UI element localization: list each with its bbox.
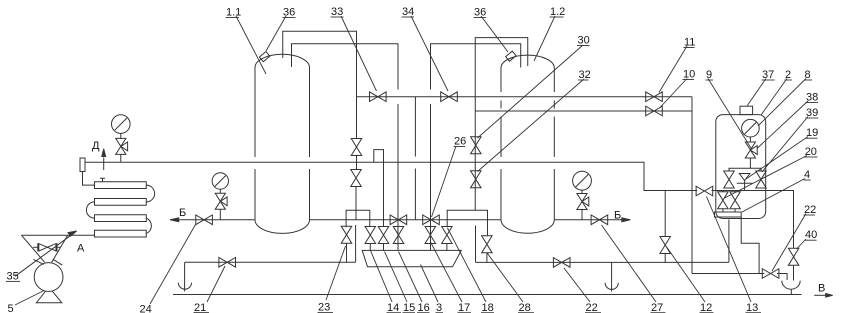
pipe: main line between columns (310, 219, 502, 221)
valve 18 (442, 227, 453, 244)
pressure gauge at column 1.2 bottom (573, 171, 592, 190)
svg-text:14: 14 (387, 302, 399, 313)
leader 8 (758, 79, 806, 127)
leader 27 (602, 225, 657, 302)
svg-text:Б: Б (614, 210, 621, 222)
separator neck (740, 106, 753, 114)
pressure gauge on separator (742, 119, 760, 137)
pipe: long middle line y=162.3 from orifice to right section (85, 162, 794, 280)
orifice fitting rectangle (80, 158, 85, 172)
nozzle 36 on column 1.2 (506, 51, 516, 61)
pump nozzle strokes (33, 259, 62, 265)
valve 10 (646, 106, 663, 116)
leader 19 (746, 137, 808, 180)
valve 33 (370, 92, 387, 102)
svg-text:21: 21 (194, 302, 206, 313)
svg-text:26: 26 (454, 136, 466, 148)
pipe: bridge cap over main line feeding valves 18 and 28 (447, 210, 487, 236)
leader 23 (326, 246, 346, 300)
adsorber column 1.1 shell walls (255, 68, 310, 220)
valve 24 on line Б (196, 215, 213, 225)
pressure gauge at column 1.1 bottom (212, 173, 228, 189)
pump 5 support triangle (36, 287, 61, 303)
gauge isolation 3-way valve Д (116, 138, 128, 154)
pipe: collection line to sewer, В product line (173, 294, 802, 296)
separator lower-left valve 20 (718, 192, 729, 209)
svg-text:38: 38 (806, 92, 818, 104)
underline 12 (700, 312, 714, 313)
underline 36 right (474, 17, 487, 19)
stems of lower valve pair (723, 191, 735, 213)
svg-text:39: 39 (806, 107, 818, 119)
coil U-bend right bottom (146, 218, 151, 234)
adsorber column 1.1 top dome (255, 54, 310, 67)
leader 36 right (481, 16, 508, 52)
pipe: header y=111 with valve 10 (475, 110, 692, 112)
gauge isolation 3-way valve on separator (745, 142, 757, 158)
underline 40 (805, 239, 817, 241)
pipe: regeneration header y=96.7 with valves 33,34,11 (357, 96, 693, 98)
underline 1.1 (226, 17, 240, 19)
valve 13 (696, 186, 713, 196)
heat exchanger coil tube 1 (95, 182, 147, 189)
svg-text:1.2: 1.2 (550, 6, 565, 18)
separator lower-right valve 19 (730, 192, 741, 209)
valve 22 (553, 258, 570, 268)
underline 15 (403, 312, 416, 313)
svg-text:28: 28 (519, 302, 531, 313)
underline 30 (577, 45, 590, 47)
svg-text:18: 18 (482, 302, 494, 313)
nozzle 36 on column 1.1 (259, 52, 269, 62)
underline 8 (804, 79, 812, 81)
underline 35 (6, 280, 20, 282)
pipe: line A from column 1.1 top to valve line (283, 31, 357, 138)
underline 20 (804, 156, 817, 158)
pipe: main line right of column 1.2 with valve 27 and arrow Б (554, 219, 626, 221)
underline 4 (804, 179, 811, 181)
underline 34 (402, 16, 415, 18)
svg-text:30: 30 (578, 35, 590, 47)
valve 30 (471, 137, 482, 154)
valve 23 (341, 226, 352, 243)
pump 5 circle (34, 263, 63, 292)
valve 14 (365, 227, 376, 244)
leader 28 (487, 253, 523, 302)
svg-text:36: 36 (283, 7, 295, 19)
svg-text:11: 11 (684, 37, 695, 49)
pipe: line D to column 1.2 top and down through valves 30/32 (475, 38, 528, 263)
leader 34 (411, 16, 448, 91)
separator upper-right valve 39 (756, 171, 767, 188)
svg-text:Д: Д (92, 140, 100, 152)
svg-text:В: В (818, 283, 825, 295)
pipe: blowdown line y=262.4 right segment (476, 261, 729, 263)
underline 14 (387, 312, 402, 313)
underline 1.2 (550, 16, 564, 18)
svg-text:17: 17 (458, 302, 470, 313)
pipe: line C to column 1.2 top, jumps valve line, down through manifold (431, 44, 521, 251)
leader 12 (667, 248, 705, 303)
svg-text:Б: Б (179, 207, 186, 219)
leader 2 (761, 79, 787, 116)
svg-text:4: 4 (804, 169, 810, 181)
drain 3 tick to collection line (790, 290, 792, 295)
leader 33 (341, 16, 377, 91)
cap header over upper valve pair (729, 168, 761, 171)
valve 35 in funnel with end flanges (33, 243, 61, 251)
svg-text:19: 19 (806, 127, 818, 139)
leader 32 (478, 79, 585, 172)
leader 5 (15, 291, 44, 306)
upper valve of 33-branch string (351, 139, 362, 156)
distributing collector 3 (362, 250, 461, 266)
pipe: right downcomer x=692 (691, 97, 693, 274)
gauge isolation 3-way valve at column 1.2 (577, 194, 589, 210)
svg-text:36: 36 (474, 7, 486, 19)
heat exchanger coil tube 3 (95, 215, 147, 222)
heat exchanger coil tube 2 (95, 199, 147, 206)
arrow Б right tip (622, 218, 631, 222)
leader 10 (660, 79, 687, 108)
leader 3 (421, 265, 439, 303)
svg-text:3: 3 (436, 302, 442, 313)
valve 21 (219, 258, 236, 268)
arrow В tip and stub (814, 294, 827, 296)
middle relief piece (737, 174, 753, 191)
coil U-bend left (86, 202, 94, 218)
leader 22 bottom (564, 268, 590, 302)
pipe: main bottom process line left, arrow Б to vessel 1 (170, 219, 255, 221)
valve 40 (788, 248, 799, 265)
svg-text:37: 37 (762, 69, 774, 81)
separator internal header bar (715, 212, 742, 217)
svg-text:13: 13 (746, 302, 758, 313)
underline 37 (762, 79, 775, 81)
valve 28 (482, 236, 493, 253)
pipe: blowdown line y=262.3 left segment to drain (185, 261, 356, 263)
pipe: bridge cap over valves 23 and 14 (346, 210, 370, 227)
underline 17 (458, 312, 472, 313)
arrow Б left tip (170, 218, 179, 222)
adsorber column 1.2 top dome (501, 55, 554, 68)
svg-text:15: 15 (403, 302, 415, 313)
valve 27 (591, 215, 608, 225)
valve 17 (425, 227, 436, 244)
leader 16 (399, 252, 423, 303)
flow arrow Д branch (103, 158, 105, 171)
underline 3 (436, 312, 444, 313)
underline 27 (651, 312, 666, 313)
pipe: funnel to coil inlet (21, 234, 94, 236)
separator upper-left valve (724, 171, 735, 188)
coil U-bend right top (146, 185, 154, 202)
leader 13 (707, 197, 752, 303)
drain 3 cup (782, 281, 800, 290)
underline 9 (706, 79, 714, 81)
underline 26 (454, 146, 466, 148)
svg-text:2: 2 (785, 69, 791, 81)
pipe: stems of manifold valves into collector (370, 244, 447, 251)
underline 22 bottom (585, 312, 601, 313)
pipe: stem of valve 23 to blowdown line (346, 244, 348, 263)
svg-text:33: 33 (331, 6, 343, 18)
svg-text:А: А (77, 243, 85, 255)
gauge Д stem (120, 133, 122, 162)
leader 4 (742, 179, 805, 213)
leader 1.1 (236, 16, 266, 74)
pipe: drain 2 drop (611, 262, 613, 291)
leader 9 (708, 79, 752, 150)
pipe: right vessel header drain to drain line (741, 217, 759, 274)
leader 1.2 (534, 16, 555, 61)
svg-text:24: 24 (140, 304, 152, 313)
leader 22 right (772, 214, 806, 272)
adsorber column 1.1 bottom dome (255, 220, 310, 234)
leader 21 (207, 266, 225, 302)
underline 19 (806, 137, 818, 139)
svg-text:32: 32 (579, 69, 591, 81)
underline 22 right (804, 214, 816, 216)
svg-text:27: 27 (651, 302, 663, 313)
valve on drain line near separator (762, 269, 779, 279)
heat exchanger coil tube 4 (95, 230, 147, 237)
underline 39 (806, 117, 819, 119)
underline 10 (683, 79, 695, 81)
leader 17 (431, 242, 463, 302)
drain 1: drop and cup (184, 262, 186, 291)
svg-text:23: 23 (318, 302, 330, 313)
valve 32 (471, 171, 482, 188)
valve 15 (378, 227, 389, 244)
pipe: line B from column 1.1 top, jumps valve line, down to inline valve (292, 44, 399, 251)
svg-text:10: 10 (683, 69, 695, 81)
svg-text:8: 8 (805, 69, 811, 81)
leader 39 (762, 117, 808, 173)
moisture separator vessel body (716, 115, 766, 219)
leader 11 (659, 46, 687, 93)
svg-text:16: 16 (418, 302, 430, 313)
underline 11 (684, 47, 695, 49)
leader 14 (371, 251, 393, 303)
underline 21 (194, 312, 210, 313)
leader 26 (432, 146, 457, 217)
adsorber column 1.2 shell walls with line crossing breaks (500, 68, 502, 220)
leader 40 (797, 239, 807, 249)
valve 11 (646, 92, 663, 102)
adsorber column 1.2 bottom dome (501, 220, 554, 233)
leader 24 (150, 225, 196, 305)
underline 2 (785, 79, 793, 81)
leader 15 (385, 252, 408, 303)
lower valve of 33-branch string (351, 170, 362, 187)
svg-text:35: 35 (7, 270, 19, 282)
gauge isolation 3-way valve at column 1.1 (215, 193, 227, 209)
leader 20 (725, 156, 808, 199)
underline 32 (578, 79, 589, 81)
leader 37 (747, 79, 766, 107)
underline 16 (417, 312, 430, 313)
pipe: stem of valve 28 to blowdown line (486, 253, 488, 263)
svg-text:34: 34 (402, 6, 414, 18)
svg-text:1.1: 1.1 (226, 7, 241, 19)
pipe: string from valve 33 branch down to blowdown line (355, 156, 358, 263)
leader 36 left (266, 16, 286, 51)
drain 2 cup (605, 283, 618, 290)
valve 12 (660, 237, 671, 254)
coil vent tick on tube 1 (100, 178, 105, 182)
pressure gauge Д circle (112, 115, 131, 134)
flow arrow А diagonal (15, 233, 74, 276)
pipe: drain line y=273.5 with valve to drain 3 (692, 274, 787, 281)
leader 18 (448, 228, 487, 302)
feed funnel triangle (21, 235, 67, 262)
pipe: coil outlet elbow to orifice fitting (83, 172, 95, 186)
underline 18 (481, 312, 494, 313)
underline 28 (518, 312, 534, 313)
leader 30 (478, 45, 584, 138)
pipe: valve 12 branch from line 190.5 down to blowdown line (664, 191, 666, 263)
svg-text:12: 12 (700, 302, 712, 313)
inline valve on main line below line B (390, 215, 407, 225)
svg-text:20: 20 (805, 146, 817, 158)
svg-text:22: 22 (586, 302, 598, 313)
underline 36 left (283, 17, 296, 19)
svg-text:5: 5 (8, 303, 14, 313)
svg-text:9: 9 (706, 69, 712, 81)
svg-text:40: 40 (805, 229, 817, 241)
pipe: bypass x=415.4 jumping line 162.3 (414, 97, 416, 220)
valve 16 (393, 227, 404, 244)
svg-text:22: 22 (804, 204, 816, 216)
valve 26 inline on main line (423, 215, 440, 225)
valve 34 (441, 92, 458, 102)
pipe: right vessel bottom drain to blowdown line (728, 220, 730, 263)
underline 38 (806, 102, 819, 104)
underline 23 (318, 312, 334, 313)
underline 13 (746, 312, 762, 313)
underline 33 (331, 16, 344, 18)
pipe: jump bridge over line 162.3 feeding valve 15 (374, 150, 384, 227)
leader 38 (758, 101, 809, 148)
